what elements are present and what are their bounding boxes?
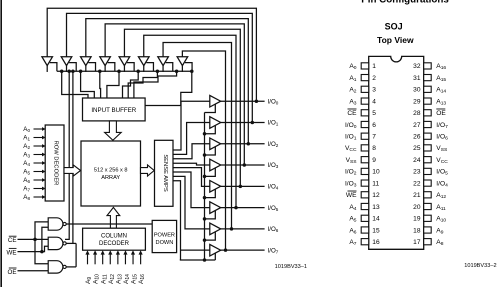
- wire: data line D5 from bus into input buffer: [128, 71, 157, 98]
- svg-text:1019BV33–1: 1019BV33–1: [275, 264, 307, 270]
- node: data tap D6 on enable bus: [175, 70, 179, 74]
- output buffer triangle U5 (I/O5): [210, 202, 221, 214]
- svg-text:7: 7: [372, 134, 376, 141]
- svg-text:22: 22: [413, 180, 421, 187]
- input data buffer triangle D0: [42, 57, 53, 66]
- gate G3 (output enable): [48, 261, 63, 273]
- wire: sense amp output 3 to I/O3 buffer: [173, 163, 210, 165]
- wire: output of triangle D7 to bus: [181, 66, 183, 72]
- wire: enable stub of triangle D0: [50, 63, 57, 72]
- gate G2 (write enable): [48, 237, 63, 249]
- svg-text:23: 23: [413, 169, 421, 176]
- pin 32 lead: [424, 63, 432, 69]
- wire: data line D3 from bus into input buffer: [107, 71, 119, 98]
- svg-text:A5: A5: [23, 169, 30, 176]
- wire: sense amp output 2 to I/O2 buffer: [173, 144, 210, 159]
- wire: output of triangle D2 to bus: [85, 66, 87, 72]
- svg-text:32: 32: [413, 63, 421, 70]
- svg-text:DOWN: DOWN: [156, 240, 174, 246]
- svg-text:12: 12: [372, 192, 380, 199]
- wire: control riser from write gate G2 to bus: [72, 71, 74, 243]
- svg-text:30: 30: [413, 87, 421, 94]
- node: junction of loop 6 on I/O6 line: [230, 227, 234, 231]
- svg-text:I/O2: I/O2: [268, 141, 279, 148]
- wire: data line D1 from bus into input buffer: [81, 71, 95, 98]
- svg-text:2: 2: [372, 75, 376, 82]
- svg-text:A2: A2: [23, 143, 30, 150]
- pin 22 lead: [424, 180, 432, 186]
- sense amps block: [155, 140, 174, 206]
- input data buffer triangle D2: [81, 57, 92, 66]
- svg-text:SENSE AMPS: SENSE AMPS: [162, 154, 168, 192]
- pin 17 lead: [424, 239, 432, 245]
- wire: sense amp output 4 to I/O4 buffer: [173, 168, 210, 187]
- svg-text:A3: A3: [23, 152, 30, 159]
- svg-text:1: 1: [372, 63, 376, 70]
- wire: I/O5 feedback loop to input buffer D5: [144, 35, 236, 207]
- pin 5 lead: [361, 110, 369, 116]
- wire: enable stub of triangle D7: [185, 63, 192, 72]
- wire: enable stub of I/O6 output buffer: [205, 232, 216, 240]
- node: junction of loop 3 on I/O3 line: [243, 163, 247, 167]
- svg-text:I/O7: I/O7: [268, 247, 279, 254]
- svg-text:512 x 256 x 8: 512 x 256 x 8: [94, 167, 128, 173]
- wire: enable stub of I/O1 output buffer: [205, 126, 216, 134]
- node: junction of loop 7 on I/O7 line: [224, 248, 228, 252]
- wire: I/O3 pad line: [221, 164, 265, 166]
- wire: I/O1 pad line: [221, 121, 265, 123]
- output buffer triangle U3 (I/O3): [210, 159, 221, 171]
- svg-text:15: 15: [372, 227, 380, 234]
- node: junction of loop 2 on I/O2 line: [247, 142, 251, 146]
- wire: enable stub of triangle D3: [108, 63, 115, 72]
- node: data tap D3 on enable bus: [117, 70, 121, 74]
- wire: output of triangle D5 to bus: [143, 66, 145, 72]
- svg-text:9: 9: [372, 157, 376, 164]
- svg-text:13: 13: [372, 204, 380, 211]
- input data buffer triangle D6: [158, 57, 169, 66]
- svg-text:OE: OE: [436, 110, 446, 117]
- svg-text:COLUMN: COLUMN: [101, 233, 127, 239]
- pin 8 lead: [361, 145, 369, 151]
- wire: I/O0 pad line: [221, 100, 265, 102]
- svg-text:6: 6: [372, 122, 376, 129]
- pin 26 lead: [424, 133, 432, 139]
- wire: output of triangle D0 to bus: [46, 66, 48, 72]
- column address input A16: [140, 253, 142, 264]
- svg-text:11: 11: [372, 180, 379, 187]
- wire: output of triangle D1 to bus: [66, 66, 68, 72]
- svg-text:3: 3: [372, 87, 376, 94]
- column address input A13: [117, 253, 119, 264]
- svg-text:WE: WE: [7, 249, 17, 256]
- node: data tap D2 on enable bus: [98, 70, 102, 74]
- node: junction of loop 4 on I/O4 line: [239, 185, 243, 189]
- svg-text:I/O0: I/O0: [268, 98, 279, 105]
- svg-text:A0: A0: [23, 126, 30, 133]
- svg-text:I/O3: I/O3: [268, 162, 279, 169]
- svg-text:1019BV33–2: 1019BV33–2: [464, 263, 496, 269]
- pin 9 lead: [361, 157, 369, 163]
- node: output-enable junction: [203, 258, 207, 262]
- node: data tap D0 on enable bus: [60, 70, 64, 74]
- wire: output of triangle D3 to bus: [104, 66, 106, 72]
- wire: data line D4 from bus into input buffer: [123, 71, 139, 98]
- input data buffer triangle D4: [119, 57, 130, 66]
- svg-text:14: 14: [372, 216, 380, 223]
- wire: I/O3 feedback loop to input buffer D3: [105, 24, 244, 165]
- svg-text:CE: CE: [347, 110, 357, 117]
- pin 11 lead: [361, 180, 369, 186]
- svg-text:OE: OE: [8, 269, 17, 276]
- wire: sense amp output 7 to I/O7 buffer: [173, 181, 181, 260]
- node: junction of loop 5 on I/O5 line: [234, 206, 238, 210]
- node: data tap D5 on enable bus: [156, 70, 160, 74]
- column address input A15: [132, 253, 134, 264]
- power down block: [152, 220, 176, 252]
- pin 12 lead: [361, 192, 369, 198]
- svg-text:A1: A1: [23, 135, 30, 142]
- pin 13 lead: [361, 203, 369, 209]
- wire: I/O0 feedback loop to input buffer D0: [47, 8, 256, 101]
- pin 18 lead: [424, 227, 432, 233]
- output buffer triangle U0 (I/O0): [210, 95, 221, 107]
- pin 6 lead: [361, 121, 369, 127]
- pin 4 lead: [361, 98, 369, 104]
- node: junction of loop 0 on I/O0 line: [255, 99, 259, 103]
- wire: enable stub of I/O5 output buffer: [205, 211, 216, 219]
- svg-text:CE: CE: [8, 237, 17, 244]
- wire: enable stub of I/O3 output buffer: [205, 168, 216, 176]
- svg-text:4: 4: [372, 98, 376, 105]
- node: data tap D7 on enable bus: [190, 70, 194, 74]
- arrow: input buffer to array: [105, 121, 122, 140]
- column address input A14: [124, 253, 126, 264]
- wire: output of triangle D6 to bus: [162, 66, 164, 72]
- svg-text:17: 17: [413, 239, 421, 246]
- wire: G2 output: [66, 242, 76, 244]
- svg-text:10: 10: [372, 169, 380, 176]
- wire: G2/G3 output join: [75, 243, 77, 267]
- arrow: column decoder to array: [107, 207, 120, 228]
- svg-text:A8: A8: [23, 194, 30, 201]
- svg-text:A6: A6: [23, 177, 30, 184]
- pin 10 lead: [361, 168, 369, 174]
- svg-text:29: 29: [413, 98, 421, 105]
- pin 25 lead: [424, 145, 432, 151]
- wire: I/O5 pad line: [221, 207, 265, 209]
- wire: data line D2 from bus into input buffer: [99, 71, 102, 98]
- SOJ package body U1: [369, 56, 424, 249]
- wire: sense amp output 5 to I/O5 buffer: [173, 172, 210, 208]
- gate G1 (CE/WE write control): [48, 218, 63, 230]
- column address input A10: [94, 253, 96, 264]
- pin 14 lead: [361, 215, 369, 221]
- input data buffer triangle D5: [138, 57, 149, 66]
- column address input A9: [87, 253, 89, 264]
- svg-text:Top View: Top View: [377, 35, 414, 45]
- input data buffer triangle D7: [177, 57, 188, 66]
- wire: I/O6 pad line: [221, 228, 265, 230]
- svg-text:18: 18: [413, 227, 421, 234]
- svg-text:I/O1: I/O1: [268, 120, 279, 127]
- input data buffer triangle D3: [100, 57, 111, 66]
- svg-text:21: 21: [413, 192, 421, 199]
- pin 3 lead: [361, 86, 369, 92]
- wire: data line D6 from bus into input buffer: [134, 71, 177, 98]
- svg-text:POWER: POWER: [154, 232, 175, 238]
- svg-text:ROW DECODER: ROW DECODER: [53, 141, 59, 186]
- wire: enable stub of triangle D2: [88, 63, 95, 72]
- svg-text:31: 31: [413, 75, 421, 82]
- svg-text:19: 19: [413, 216, 421, 223]
- pin 19 lead: [424, 215, 432, 221]
- pin 24 lead: [424, 157, 432, 163]
- svg-text:26: 26: [413, 134, 421, 141]
- pin 15 lead: [361, 227, 369, 233]
- input buffer block: [83, 98, 146, 121]
- output buffer triangle U2 (I/O2): [210, 138, 221, 150]
- wire: enable stub of triangle D4: [127, 63, 134, 72]
- pin 2 lead: [361, 75, 369, 81]
- svg-text:5: 5: [372, 110, 376, 117]
- svg-text:I/O5: I/O5: [268, 205, 279, 212]
- wire: G3 output: [66, 266, 76, 268]
- node: data tap D4 on enable bus: [136, 70, 140, 74]
- pin 28 lead: [424, 110, 432, 116]
- svg-text:16: 16: [372, 239, 380, 246]
- wire: data line D0 from bus into input buffer: [62, 71, 88, 98]
- arrow: row decoder to array: [64, 165, 81, 176]
- svg-text:24: 24: [413, 157, 421, 164]
- output buffer triangle U1 (I/O1): [210, 117, 221, 129]
- wire: I/O6 feedback loop to input buffer D6: [163, 43, 231, 229]
- wire: input-buffer enable bus: [57, 70, 192, 72]
- svg-text:A7: A7: [23, 186, 30, 193]
- wire: sense amp output 1 to I/O1 buffer: [173, 122, 210, 154]
- column address input A12: [109, 253, 111, 264]
- svg-text:INPUT BUFFER: INPUT BUFFER: [91, 107, 136, 114]
- wire: enable stub of I/O0 output buffer: [205, 104, 216, 112]
- wire: I/O7 feedback loop to input buffer D7: [182, 51, 225, 250]
- arrow: array to sense amps: [141, 165, 155, 176]
- wire: enable stub of triangle D1: [69, 63, 76, 72]
- pin 23 lead: [424, 168, 432, 174]
- node: data tap D1 on enable bus: [79, 70, 83, 74]
- svg-text:20: 20: [413, 204, 421, 211]
- svg-text:WE: WE: [346, 192, 357, 199]
- wire: G1 output to power down block: [66, 223, 152, 225]
- svg-text:25: 25: [413, 145, 421, 152]
- wire: OE net: [18, 270, 49, 272]
- pin 29 lead: [424, 98, 432, 104]
- wire: data line D7 from bus into input buffer: [145, 71, 192, 105]
- wire: I/O2 pad line: [221, 143, 265, 145]
- column address input A11: [102, 253, 104, 264]
- svg-text:ARRAY: ARRAY: [101, 175, 120, 181]
- svg-text:SOJ: SOJ: [385, 22, 403, 32]
- wire: enable stub of triangle D6: [166, 63, 173, 72]
- pin 27 lead: [424, 121, 432, 127]
- svg-text:DECODER: DECODER: [99, 241, 130, 247]
- wire: I/O1 feedback loop to input buffer D1: [67, 13, 253, 122]
- svg-text:8: 8: [372, 145, 376, 152]
- wire: enable stub of triangle D5: [146, 63, 153, 72]
- svg-text:A16: A16: [138, 274, 146, 284]
- svg-text:27: 27: [413, 122, 421, 129]
- pin 31 lead: [424, 75, 432, 81]
- pin 7 lead: [361, 133, 369, 139]
- wire: CE net: [18, 238, 49, 240]
- wire: WE net: [18, 251, 42, 253]
- node: junction of loop 1 on I/O1 line: [251, 121, 255, 125]
- wire: enable stub of I/O7 output buffer: [214, 253, 216, 260]
- wire: output buffer enable line: [204, 113, 206, 261]
- output buffer triangle U4 (I/O4): [210, 181, 221, 193]
- memory array block: [81, 141, 141, 206]
- svg-text:Pin Configurations: Pin Configurations: [361, 0, 449, 6]
- wire: I/O4 pad line: [221, 185, 265, 187]
- wire: I/O2 feedback loop to input buffer D2: [86, 19, 248, 144]
- wire: enable stub of I/O4 output buffer: [205, 190, 216, 198]
- svg-text:I/O4: I/O4: [268, 184, 279, 191]
- pin 30 lead: [424, 86, 432, 92]
- wire: output-enable bottom run: [180, 259, 216, 261]
- wire: control riser from CE gate area to bus: [65, 71, 69, 239]
- svg-text:I/O6: I/O6: [268, 226, 279, 233]
- wire: I/O7 pad line: [221, 249, 265, 251]
- pin 16 lead: [361, 239, 369, 245]
- row decoder block: [45, 125, 64, 201]
- page left border rule: [0, 0, 2, 287]
- wire: I/O4 feedback loop to input buffer D4: [124, 29, 240, 186]
- wire: sense amp output 0 to I/O0 buffer: [173, 101, 210, 150]
- svg-text:28: 28: [413, 110, 421, 117]
- wire: output of triangle D4 to bus: [123, 66, 125, 72]
- column decoder block: [83, 228, 146, 250]
- pin 1 lead: [361, 63, 369, 69]
- wire: sense amp output 6 to I/O6 buffer: [173, 176, 210, 228]
- svg-text:A4: A4: [23, 160, 30, 167]
- output buffer triangle U6 (I/O6): [210, 223, 221, 235]
- output buffer triangle U7 (I/O7): [210, 244, 221, 256]
- pin 21 lead: [424, 192, 432, 198]
- wire: enable stub of I/O2 output buffer: [205, 147, 216, 155]
- pin 20 lead: [424, 203, 432, 209]
- input data buffer triangle D1: [61, 57, 72, 66]
